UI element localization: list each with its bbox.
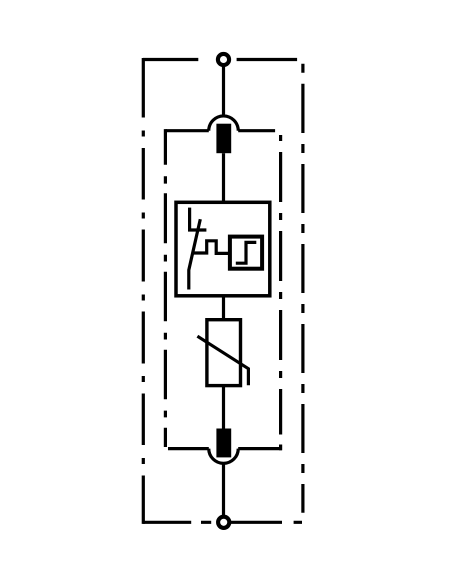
inner module frame bottom edge <box>168 447 282 450</box>
upper plug-in contact arc <box>209 116 239 131</box>
disconnector switch blade <box>189 219 201 289</box>
lower plug-in contact block <box>216 429 231 458</box>
disconnector linkage step line <box>192 241 230 254</box>
wire: lower contact to bottom terminal <box>222 463 225 515</box>
thermal element box <box>230 237 262 269</box>
outer enclosure frame right edge (dash-dot) <box>301 64 304 513</box>
wire: upper contact to disconnector box <box>222 153 225 202</box>
wire: varistor to lower plug contact <box>222 386 225 429</box>
disconnector contact bar (horizontal) <box>188 228 206 231</box>
disconnector fixed lead (vertical) <box>188 208 191 232</box>
thermal element step symbol <box>236 242 256 263</box>
inner module frame top edge <box>166 129 276 132</box>
outer enclosure frame left edge (dash-dot) <box>142 58 145 524</box>
inner module frame left edge (dash-dot) <box>164 129 167 447</box>
terminal circle top <box>218 54 229 65</box>
varistor body rect <box>207 320 241 386</box>
outer enclosure frame bottom edge (dash-dot) <box>143 521 302 524</box>
disconnector unit box <box>176 202 270 295</box>
lower plug-in contact arc <box>209 449 239 464</box>
varistor diagonal stroke with tail <box>197 336 248 385</box>
inner module frame right edge (dash-dot) <box>279 135 282 450</box>
wire: top terminal to upper plug contact <box>222 67 225 118</box>
upper plug-in contact block <box>216 124 231 154</box>
terminal circle bottom <box>218 517 229 528</box>
outer enclosure frame top edge (dash-dot) <box>143 58 297 61</box>
wire: disconnector box to varistor <box>222 296 225 320</box>
